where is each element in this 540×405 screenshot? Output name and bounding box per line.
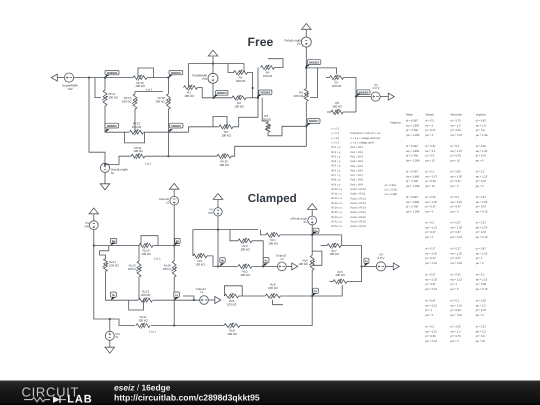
- node Sx: [174, 238, 180, 246]
- svg-text:RF16 = u: RF16 = u: [331, 216, 342, 219]
- svg-text:RF11 = u: RF11 = u: [331, 193, 342, 196]
- svg-text:pl = 6.67: pl = 6.67: [425, 206, 436, 209]
- svg-text:sw = 1.67: sw = 1.67: [450, 150, 462, 153]
- svg-text:Setosa: Setosa: [425, 114, 434, 117]
- label e2: [166, 200, 170, 204]
- footer title eseiz / 16edge: [114, 383, 171, 393]
- wire: [105, 156, 131, 164]
- svg-text:e2: e2: [166, 200, 170, 204]
- wire: [231, 146, 306, 156]
- wire: [212, 57, 214, 74]
- svg-text:pl = 2.53: pl = 2.53: [450, 129, 461, 132]
- svg-text:pw = 0.15: pw = 0.15: [476, 288, 488, 291]
- svg-text:sw = 1.8: sw = 1.8: [476, 124, 487, 127]
- svg-text:100 kΩ: 100 kΩ: [329, 252, 339, 256]
- svg-text:sl = 6.587: sl = 6.587: [406, 196, 418, 199]
- output port V3 (arrow): [393, 263, 399, 270]
- svg-text:sl = 5.27: sl = 5.27: [476, 325, 487, 328]
- svg-text:pw = 0.15: pw = 0.15: [450, 262, 462, 265]
- label SepalLength: [111, 168, 129, 172]
- ground: [105, 347, 115, 353]
- wire: [153, 245, 180, 247]
- svg-text:PW: PW: [208, 211, 213, 215]
- svg-text:pl = 6.67: pl = 6.67: [476, 155, 487, 158]
- wire: [207, 256, 218, 267]
- svg-text:uf = 2.961: uf = 2.961: [385, 184, 397, 187]
- wire RF1x wiper: [95, 78, 101, 98]
- resistor Rc6: [225, 293, 239, 306]
- svg-text:sw = 1.966: sw = 1.966: [406, 175, 420, 178]
- svg-text:Mean: Mean: [406, 114, 413, 117]
- wire: [362, 265, 377, 267]
- node NODE1: [168, 123, 183, 132]
- voltage source Output2 (clamped): [277, 262, 286, 271]
- wire bus1: [74, 77, 133, 79]
- wire: [135, 92, 163, 95]
- svg-text:100 kΩ: 100 kΩ: [122, 99, 132, 103]
- svg-text:sl = 5.27: sl = 5.27: [450, 247, 461, 250]
- wire: [311, 210, 313, 216]
- resistor R3: [261, 114, 271, 132]
- svg-text:sl = 6.587: sl = 6.587: [406, 170, 418, 173]
- svg-text:PL: PL: [297, 42, 301, 46]
- resistor Rc7: [327, 243, 341, 256]
- svg-text:Rx8 = RF8: Rx8 = RF8: [351, 179, 364, 182]
- node junction: [167, 77, 169, 79]
- label Output2: [159, 197, 170, 201]
- wire: [145, 155, 217, 157]
- svg-text:sl = 5.27: sl = 5.27: [450, 221, 461, 224]
- wire: [343, 111, 356, 113]
- node junction: [213, 97, 215, 99]
- wire: [330, 281, 334, 283]
- svg-text:Rc10 + RF52: Rc10 + RF52: [351, 225, 367, 228]
- svg-text:sw = 2.35: sw = 2.35: [450, 252, 462, 255]
- label PW: [202, 77, 207, 81]
- svg-text:Rx3 = RF3: Rx3 = RF3: [351, 155, 364, 158]
- ground: [100, 184, 110, 190]
- svg-text:100 kΩ: 100 kΩ: [141, 293, 151, 297]
- voltage source PL (PetalLength): [301, 37, 311, 47]
- label Output1: [196, 287, 207, 291]
- wire: [305, 30, 307, 37]
- svg-text:sl = 5.2: sl = 5.2: [425, 325, 434, 328]
- svg-text:pw = 0: pw = 0: [476, 160, 484, 163]
- node NODE3: [213, 90, 228, 98]
- label VSI: [115, 332, 120, 336]
- wire RF12 loop: [125, 132, 145, 143]
- svg-text:1 to 1: 1 to 1: [154, 257, 161, 261]
- svg-text:sl = 3.55: sl = 3.55: [450, 325, 461, 328]
- svg-text:pw = 0: pw = 0: [425, 236, 433, 239]
- resistor Rc2: [238, 264, 252, 277]
- svg-text:Rc10 + RF52: Rc10 + RF52: [351, 221, 367, 224]
- node 0w: [312, 228, 319, 235]
- node junction: [217, 265, 219, 267]
- svg-text:x + y = voltage up+R: x + y = voltage up+R: [351, 142, 375, 145]
- voltage source V3: [376, 262, 385, 271]
- wire: [109, 340, 111, 347]
- title Clamped: [248, 192, 297, 205]
- wire: [208, 299, 216, 301]
- node junction: [252, 87, 254, 89]
- wire RF16 bypass loop: [138, 68, 154, 78]
- svg-text:y = 0.5: y = 0.5: [331, 132, 339, 135]
- power flag (PW clamped): [213, 194, 223, 200]
- voltage source SL (clamped): [105, 331, 114, 340]
- svg-text:RF52 = u: RF52 = u: [331, 225, 342, 228]
- wire: [253, 265, 278, 267]
- node 0x2: [263, 258, 269, 267]
- wire: [268, 59, 283, 68]
- svg-text:NODE3: NODE3: [217, 91, 227, 95]
- svg-text:e2: e2: [280, 257, 284, 261]
- label Output2: [276, 253, 287, 257]
- label VS: [85, 221, 89, 225]
- node junction: [311, 234, 313, 236]
- node junction: [193, 299, 195, 301]
- svg-text:Rx14 = RF14: Rx14 = RF14: [351, 207, 367, 210]
- label SW: [84, 224, 89, 228]
- svg-text:sw = 2.15: sw = 2.15: [450, 201, 462, 204]
- svg-text:e1: e1: [200, 290, 204, 294]
- wire: [138, 277, 140, 300]
- svg-text:Virginica: Virginica: [390, 122, 401, 125]
- svg-text:100 kΩ: 100 kΩ: [184, 94, 194, 98]
- wire: [327, 111, 331, 113]
- label cPetalLength: [290, 217, 307, 221]
- resistor RF11: [131, 146, 145, 159]
- wire (Rc8 wiper tail): [273, 300, 284, 305]
- svg-text:sl = 5.2: sl = 5.2: [425, 221, 434, 224]
- svg-text:RF9 = y: RF9 = y: [331, 183, 341, 186]
- node junction: [311, 295, 313, 297]
- svg-text:http://circuitlab.com/c2898d3q: http://circuitlab.com/c2898d3qkkt95: [114, 392, 260, 402]
- svg-text:pl = 6.65: pl = 6.65: [425, 180, 436, 183]
- svg-text:RF1 = y: RF1 = y: [331, 146, 341, 149]
- svg-text:Virginica: Virginica: [476, 114, 487, 117]
- label PL: [297, 42, 301, 46]
- svg-text:pl = 6.67: pl = 6.67: [425, 283, 436, 286]
- node NODE5: [105, 123, 119, 132]
- svg-text:sw = 2.15: sw = 2.15: [450, 278, 462, 281]
- svg-text:pl = 1: pl = 1: [476, 257, 483, 260]
- svg-text:SW: SW: [68, 87, 73, 91]
- wire: [167, 109, 169, 132]
- svg-text:100 kΩ: 100 kΩ: [227, 332, 237, 336]
- wire: [153, 299, 200, 301]
- svg-text:sw = 2.15: sw = 2.15: [476, 175, 488, 178]
- output port Output1 (arrow): [215, 297, 221, 304]
- node NODE8: [105, 70, 119, 78]
- wire: [218, 265, 238, 267]
- svg-text:pl = 1: pl = 1: [450, 283, 457, 286]
- resistor Rc1: [193, 253, 207, 266]
- svg-text:1 to 1: 1 to 1: [149, 329, 156, 333]
- svg-text:RF3 = y: RF3 = y: [331, 155, 341, 158]
- svg-text:sw = 2.2: sw = 2.2: [476, 304, 487, 307]
- svg-text:pl = 6.67: pl = 6.67: [425, 231, 436, 234]
- svg-text:pl = 3.746: pl = 3.746: [406, 206, 418, 209]
- svg-text:100 kΩ: 100 kΩ: [298, 262, 308, 266]
- svg-text:sl = 2.65: sl = 2.65: [476, 145, 487, 148]
- svg-text:sl = 5.27: sl = 5.27: [476, 196, 487, 199]
- svg-text:RF15 = u: RF15 = u: [331, 211, 342, 214]
- svg-text:sw = 1.05: sw = 1.05: [425, 201, 437, 204]
- svg-text:z = 0.5: z = 0.5: [331, 141, 339, 144]
- wire Rc6 bypass loop: [312, 251, 322, 265]
- svg-text:sw = 2.15: sw = 2.15: [425, 226, 437, 229]
- svg-text:pl = 6.65: pl = 6.65: [476, 283, 487, 286]
- svg-text:pl = 3.746: pl = 3.746: [406, 155, 418, 158]
- wire bus2c: [111, 299, 138, 301]
- wire: [344, 78, 357, 113]
- svg-text:SL: SL: [115, 335, 119, 339]
- wire: [286, 265, 292, 267]
- svg-text:pw = 0: pw = 0: [425, 211, 433, 214]
- svg-text:pl = 5.6: pl = 5.6: [476, 335, 485, 338]
- voltage source Output2 (top): [170, 196, 179, 205]
- label V1 value: [372, 86, 380, 90]
- wire: [144, 131, 189, 133]
- resistor Rc11: [136, 315, 150, 328]
- svg-text:100 kΩ: 100 kΩ: [268, 242, 278, 246]
- svg-text:SW: SW: [84, 224, 89, 228]
- wire: [104, 106, 106, 132]
- wire bus top: [189, 63, 245, 65]
- resistor Rc13: [128, 261, 142, 277]
- node junction: [173, 244, 175, 246]
- svg-text:sl = 5.2: sl = 5.2: [450, 145, 459, 148]
- svg-text:Rx6 = RF6: Rx6 = RF6: [351, 169, 364, 172]
- voltage source cPL (cPetalLength): [308, 216, 317, 225]
- svg-text:sl = 3.55: sl = 3.55: [476, 299, 487, 302]
- svg-text:sl = 5.2: sl = 5.2: [476, 170, 485, 173]
- wire: [106, 272, 111, 301]
- svg-text:sl = 5.47: sl = 5.47: [476, 247, 487, 250]
- node junction: [173, 324, 175, 326]
- svg-text:100 kΩ: 100 kΩ: [234, 104, 244, 108]
- wire: [134, 109, 136, 132]
- logo LAB text: [67, 394, 92, 405]
- svg-text:2.0 V: 2.0 V: [372, 86, 380, 90]
- node junction: [104, 77, 106, 79]
- resistor R1: [184, 85, 198, 98]
- wire: [151, 325, 224, 327]
- svg-text:pl = 6.75: pl = 6.75: [476, 309, 487, 312]
- svg-text:2.0 V: 2.0 V: [377, 256, 384, 260]
- svg-text:sw = 2.35: sw = 2.35: [476, 226, 488, 229]
- resistor RF18: [155, 94, 171, 109]
- svg-text:100 kΩ: 100 kΩ: [133, 149, 143, 153]
- wire: [93, 214, 95, 221]
- output port V1 (arrow): [388, 93, 394, 100]
- node junction: [257, 97, 259, 99]
- node junction: [355, 96, 357, 98]
- node junction: [104, 163, 106, 165]
- svg-text:pw = 0.15: pw = 0.15: [450, 314, 462, 317]
- wire: [167, 78, 169, 94]
- resistor Rc4: [266, 232, 280, 245]
- svg-text:pw = 0.15: pw = 0.15: [425, 262, 437, 265]
- svg-text:1 to 1: 1 to 1: [146, 87, 153, 91]
- node junction: [361, 265, 363, 267]
- node 1x: [174, 292, 180, 301]
- svg-text:pl = 6.67: pl = 6.67: [450, 257, 461, 260]
- wire: [380, 96, 388, 98]
- voltage source V1: [371, 92, 380, 101]
- svg-text:100 kΩ: 100 kΩ: [195, 263, 205, 267]
- svg-text:Rx4 = RF4: Rx4 = RF4: [351, 160, 364, 163]
- wire Rc6 bypass loop: [224, 286, 242, 296]
- wire: [341, 235, 343, 246]
- svg-text:u2 = 2.036: u2 = 2.036: [385, 189, 398, 192]
- text column (parameters): [331, 128, 342, 229]
- table data rows: [406, 119, 488, 343]
- svg-text:pw = 0.15: pw = 0.15: [425, 288, 437, 291]
- label PW: [208, 211, 213, 215]
- node junction: [212, 62, 214, 64]
- wire: [198, 88, 233, 98]
- svg-text:RF51 = u: RF51 = u: [331, 221, 342, 224]
- svg-text:100 kΩ: 100 kΩ: [138, 319, 148, 323]
- svg-text:pw = 0.15: pw = 0.15: [476, 236, 488, 239]
- resistor R4: [261, 65, 275, 78]
- wire: [57, 77, 64, 79]
- node 0x: [110, 292, 116, 301]
- svg-text:sw = 2.35: sw = 2.35: [476, 201, 488, 204]
- wire: [138, 246, 140, 262]
- svg-text:pw = 0: pw = 0: [450, 340, 458, 343]
- svg-text:pw = 0.15: pw = 0.15: [450, 236, 462, 239]
- svg-text:pw = 0: pw = 0: [425, 134, 433, 137]
- output port Output2 (arrow): [292, 263, 298, 270]
- voltage source PW (clamped): [214, 208, 222, 216]
- svg-text:RF14 = u: RF14 = u: [331, 207, 342, 210]
- svg-text:sl = 5.2: sl = 5.2: [425, 119, 434, 122]
- svg-text:Rx5 = RF5: Rx5 = RF5: [351, 165, 364, 168]
- label PetalWidth: [192, 74, 207, 78]
- title Free: [248, 35, 274, 49]
- resistor Rc3: [238, 238, 252, 251]
- resistor R7: [330, 75, 344, 88]
- resistor R5: [234, 70, 248, 83]
- svg-text:Rx1 = RF1: Rx1 = RF1: [351, 146, 364, 149]
- svg-text:pw = 0.67: pw = 0.67: [450, 134, 462, 137]
- node NODE2: [305, 60, 321, 69]
- resistor Rc8: [265, 283, 280, 299]
- svg-text:PW: PW: [202, 77, 207, 81]
- resistor R6: [293, 89, 309, 102]
- svg-text:sl = 6.87: sl = 6.87: [476, 119, 487, 122]
- svg-text:pl = 3.8: pl = 3.8: [476, 129, 485, 132]
- resistor Rc9: [224, 323, 240, 336]
- svg-text:pw = 1.299: pw = 1.299: [406, 160, 420, 163]
- label PL: [304, 220, 308, 224]
- svg-text:pw = 0: pw = 0: [476, 185, 484, 188]
- svg-text:RF12 = u: RF12 = u: [331, 197, 342, 200]
- power flag (Output2): [169, 183, 179, 189]
- svg-text:sl = 5.27: sl = 5.27: [425, 247, 436, 250]
- node NODE0: [356, 90, 370, 97]
- svg-text:100 Ω: 100 Ω: [128, 267, 137, 271]
- wire: [100, 246, 109, 259]
- svg-text:pl = 6.67: pl = 6.67: [450, 180, 461, 183]
- label V3: [379, 253, 383, 257]
- svg-text:sl = 5.2: sl = 5.2: [450, 299, 459, 302]
- svg-text:Free: Free: [248, 35, 274, 49]
- svg-text:pl = 6.67: pl = 6.67: [425, 129, 436, 132]
- svg-text:100 kΩ: 100 kΩ: [227, 303, 237, 307]
- svg-text:sw = 1.966: sw = 1.966: [406, 124, 420, 127]
- svg-text:pw = 0: pw = 0: [476, 314, 484, 317]
- svg-text:sw = 2.2: sw = 2.2: [450, 330, 461, 333]
- svg-text:sl = 5.27: sl = 5.27: [425, 273, 436, 276]
- wire: [305, 102, 307, 146]
- svg-text:pl = 6.67: pl = 6.67: [476, 206, 487, 209]
- node junction: [217, 229, 219, 231]
- wire bus3c: [193, 229, 258, 231]
- resistor RF10: [217, 153, 231, 166]
- table headers: [390, 114, 486, 125]
- wire R9 bypass loop: [213, 117, 227, 127]
- wire: [386, 265, 394, 267]
- wire: [173, 190, 175, 197]
- wire (bus tap at Output1): [183, 296, 194, 300]
- svg-text:NODE8: NODE8: [107, 71, 117, 75]
- svg-text:LAB: LAB: [67, 394, 92, 405]
- label e2: [280, 257, 284, 261]
- svg-text:RF6 = y: RF6 = y: [331, 169, 341, 172]
- wire: [230, 230, 238, 241]
- svg-text:sw = 2.2: sw = 2.2: [425, 150, 436, 153]
- svg-text:Clamped: Clamped: [248, 192, 297, 205]
- svg-text:Rx15 = RF15: Rx15 = RF15: [351, 211, 367, 214]
- svg-text:NODE6: NODE6: [171, 71, 181, 75]
- label V3 value: [377, 256, 384, 260]
- svg-text:pw = 0: pw = 0: [450, 185, 458, 188]
- svg-text:pw = 10: pw = 10: [476, 340, 486, 343]
- wire: [341, 246, 362, 267]
- svg-text:RF7 = y: RF7 = y: [331, 174, 341, 177]
- svg-text:pl = 6.67: pl = 6.67: [476, 231, 487, 234]
- label SW: [68, 87, 73, 91]
- wire: [311, 225, 313, 235]
- node junction: [88, 77, 90, 79]
- svg-text:NODE4: NODE4: [261, 91, 271, 95]
- svg-text:pw = 10: pw = 10: [425, 185, 435, 188]
- svg-text:pw = 0: pw = 0: [425, 314, 433, 317]
- svg-text:100 kΩ: 100 kΩ: [268, 286, 278, 290]
- svg-text:pw = 10: pw = 10: [450, 160, 460, 163]
- svg-text:sw = 1.67: sw = 1.67: [425, 175, 437, 178]
- wire: [356, 96, 371, 98]
- wire: [188, 64, 190, 88]
- svg-text:u3 = 2.388: u3 = 2.388: [385, 193, 398, 196]
- svg-text:Rx16 = RF16: Rx16 = RF16: [351, 216, 367, 219]
- svg-text:sl = 5.2: sl = 5.2: [425, 170, 434, 173]
- wire (R6 wiper up): [310, 68, 318, 98]
- wire: [239, 295, 266, 297]
- svg-text:sw = 2.2: sw = 2.2: [476, 330, 487, 333]
- svg-text:100 kΩ: 100 kΩ: [332, 84, 342, 88]
- svg-text:100 kΩ: 100 kΩ: [240, 247, 250, 251]
- wire: [104, 78, 106, 90]
- svg-text:pw = 1.28: pw = 1.28: [476, 134, 488, 137]
- label SL: [111, 171, 115, 175]
- wire: [217, 216, 219, 266]
- svg-text:Rx12 = RF12: Rx12 = RF12: [351, 197, 367, 200]
